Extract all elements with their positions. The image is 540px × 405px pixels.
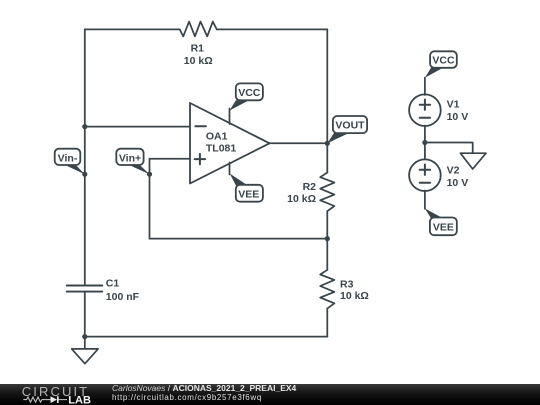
wire non-inverting input [150,158,191,160]
svg-text:10 kΩ: 10 kΩ [340,290,369,302]
junction node dot bottom left [82,334,87,339]
flag VCC supply pointer [425,68,443,78]
wire Vin+ vertical [149,159,151,239]
svg-text:10 V: 10 V [447,177,469,189]
logo diode [51,396,58,403]
flag VEE supply pointer [425,209,443,219]
svg-text:V2: V2 [447,165,460,177]
op-amp VCC stub [229,109,231,125]
wire inverting input [85,126,190,128]
footer url line 2 [112,393,262,402]
svg-text:VEE: VEE [433,221,454,233]
junction node dot inverting input [82,124,87,129]
flag VOUT box [333,116,367,133]
svg-text:C1: C1 [106,278,120,290]
wire ground stem left [84,337,86,349]
svg-text:VOUT: VOUT [335,120,365,132]
junction node dot VOUT [325,141,330,146]
op-amp OA1 [190,103,270,184]
wire top-right horizontal [217,28,327,30]
wire VCC to V1 [424,78,426,95]
flag VEE supply box [430,218,457,236]
junction node dot R2 R3 [325,236,330,241]
wire V1 to junction [424,126,426,160]
svg-text:TL081: TL081 [206,142,237,154]
op-amp plus pin mark [195,154,205,164]
flag Vin- box [55,149,81,165]
svg-text:R2: R2 [303,181,317,193]
wire op-amp output [270,142,328,144]
flag VCC op-amp box [236,83,263,100]
svg-text:Vin-: Vin- [58,152,78,164]
flag VCC supply box [430,51,457,68]
wire V2 to VEE [424,191,426,209]
resistor R2 [320,173,334,212]
flag Vin- pointer [65,165,85,174]
svg-text:LAB: LAB [68,394,91,405]
svg-text:10 kΩ: 10 kΩ [184,55,213,67]
svg-text:10 V: 10 V [447,111,469,123]
footer credit line 1 [112,383,296,393]
flag Vin+ pointer [129,165,150,174]
V1 plus mark [420,100,430,110]
wire R3 to bottom [326,308,328,336]
flag VCC op-amp pointer [230,100,250,110]
junction node dot Vin- [82,172,87,177]
op-amp minus pin mark [195,125,206,127]
voltage source V1 [409,94,441,126]
svg-text:R1: R1 [191,43,205,55]
wire feedback bottom horizontal [150,238,328,240]
resistor R3 [320,270,334,309]
ground symbol left [72,349,98,364]
wire top-left horizontal [85,28,180,30]
svg-text:V1: V1 [447,99,460,111]
wire left vertical lower [84,292,86,337]
footer bar [0,384,540,405]
junction node dot Vin+ [147,172,152,177]
wire right vertical top [326,29,328,143]
svg-text:OA1: OA1 [206,130,228,142]
svg-text:VCC: VCC [238,87,261,99]
op-amp VEE stub [229,163,231,175]
wire R2 to node [326,211,328,239]
wire output to R2 [326,143,328,172]
svg-text:VEE: VEE [238,189,259,201]
svg-text:VCC: VCC [432,55,455,67]
svg-text:100 nF: 100 nF [106,291,140,303]
V2 plus mark [420,165,430,175]
junction node dot V1 V2 [422,140,427,145]
flag Vin+ box [116,149,143,165]
svg-text:R3: R3 [340,278,354,290]
svg-text:Vin+: Vin+ [119,152,141,164]
resistor R1 [180,22,217,37]
capacitor C1 [67,286,103,292]
flag VEE op-amp box [236,185,263,202]
svg-text:10 kΩ: 10 kΩ [287,193,316,205]
ground symbol right [460,153,486,169]
wire bottom horizontal [85,336,327,338]
V2 minus mark [420,182,430,184]
logo resistor squiggle [23,397,45,402]
wire junction to right ground [425,143,473,154]
CircuitLab logo [0,384,110,405]
V1 minus mark [420,117,430,119]
flag VOUT pointer [327,133,349,143]
wire node to R3 [326,239,328,270]
wire left vertical upper [84,29,86,285]
flag VEE op-amp pointer [230,174,248,186]
voltage source V2 [409,159,441,191]
